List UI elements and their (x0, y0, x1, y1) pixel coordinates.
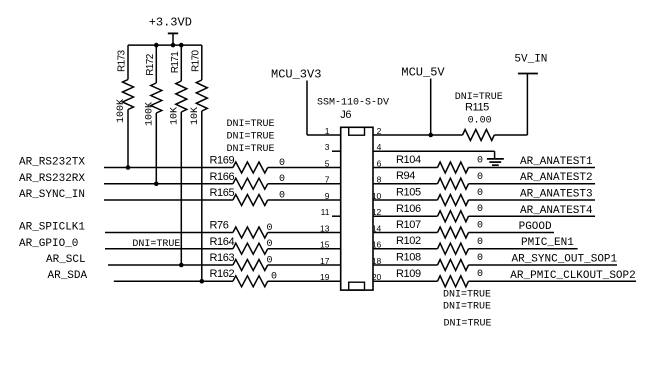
node R173/AR_RS232TX junction (126, 165, 131, 170)
svg-text:R162: R162 (210, 268, 235, 280)
node MCU_5V/pin2 junction (428, 133, 433, 138)
resistor R107 value 0 (396, 219, 483, 238)
svg-text:PMIC_EN1: PMIC_EN1 (521, 237, 574, 249)
svg-text:MCU_3V3: MCU_3V3 (271, 68, 321, 82)
wire pin 20 to AR_PMIC_CLKOUT_SOP2 (373, 280, 438, 282)
svg-text:0: 0 (279, 174, 285, 185)
resistor R169 value 0 (210, 155, 286, 174)
svg-text:0: 0 (477, 221, 483, 232)
svg-text:AR_ANATEST2: AR_ANATEST2 (520, 172, 593, 184)
svg-text:19: 19 (320, 272, 330, 282)
svg-text:11: 11 (321, 207, 330, 217)
wire AR_GPIO_0 to J6 (105, 248, 233, 250)
wire pin 3 stub (332, 150, 341, 152)
svg-text:AR_RS232RX: AR_RS232RX (19, 173, 85, 185)
node R171/AR_SCL junction (179, 263, 184, 268)
resistor R108 value 0 (396, 252, 483, 271)
wire pin 18 to AR_SYNC_OUT_SOP1 (373, 264, 438, 266)
svg-text:AR_ANATEST1: AR_ANATEST1 (520, 156, 593, 168)
resistor R105 value 0 (396, 187, 483, 206)
svg-text:0: 0 (477, 237, 483, 248)
resistor R106 value 0 (396, 203, 483, 222)
svg-text:R173: R173 (117, 49, 128, 72)
svg-text:DNI=TRUE: DNI=TRUE (132, 239, 180, 250)
svg-text:R172: R172 (145, 53, 156, 76)
svg-text:AR_RS232TX: AR_RS232TX (19, 157, 85, 169)
node R172/AR_RS232RX junction (154, 182, 159, 187)
svg-text:0: 0 (477, 156, 483, 167)
ground (487, 159, 504, 165)
svg-text:R106: R106 (396, 203, 421, 215)
svg-text:0.00: 0.00 (468, 115, 492, 126)
svg-text:R171: R171 (170, 51, 181, 74)
svg-text:R104: R104 (396, 154, 421, 166)
power symbol +3.3VD (149, 16, 192, 45)
connector J6 SSM-110-S-DV (317, 98, 389, 291)
svg-text:AR_ANATEST4: AR_ANATEST4 (520, 205, 593, 217)
svg-text:7: 7 (325, 175, 330, 185)
svg-text:5: 5 (325, 158, 330, 168)
wire AR_RS232TX to J6 (104, 167, 233, 169)
node bus junction at power stem (171, 43, 176, 48)
svg-text:AR_SDA: AR_SDA (48, 270, 88, 282)
svg-text:MCU_5V: MCU_5V (401, 66, 445, 80)
svg-text:0: 0 (279, 158, 285, 169)
resistor R109 value 0 (396, 268, 483, 287)
svg-text:R164: R164 (210, 236, 235, 248)
svg-text:R163: R163 (210, 252, 235, 264)
svg-text:R169: R169 (210, 155, 235, 167)
resistor R104 value 0 (396, 154, 483, 173)
node bus junction at R171 (179, 43, 184, 48)
resistor R162 value 0 (210, 268, 278, 287)
power symbol 5V_IN (514, 54, 547, 74)
wire AR_RS232RX to J6 (104, 183, 233, 185)
svg-text:9: 9 (325, 191, 330, 201)
svg-text:PGOOD: PGOOD (519, 221, 552, 233)
svg-text:10K: 10K (169, 107, 180, 125)
wire pin 10 to AR_ANATEST3 (373, 199, 438, 201)
svg-text:0: 0 (477, 172, 483, 183)
svg-text:AR_PMIC_CLKOUT_SOP2: AR_PMIC_CLKOUT_SOP2 (510, 270, 635, 282)
svg-text:15: 15 (320, 240, 330, 250)
wire AR_SPICLK1 to J6 (105, 232, 233, 234)
svg-text:R170: R170 (190, 49, 201, 72)
svg-text:10K: 10K (190, 107, 201, 125)
resistor R173 value 100K (116, 45, 134, 167)
svg-text:AR_SYNC_OUT_SOP1: AR_SYNC_OUT_SOP1 (512, 254, 618, 266)
svg-text:R165: R165 (210, 187, 235, 199)
svg-text:13: 13 (320, 223, 330, 233)
svg-text:R76: R76 (210, 220, 229, 232)
wire R115 to 5V_IN (494, 74, 527, 136)
wire pin 11 stub (332, 215, 341, 217)
wire pin 2 to R115 (373, 134, 463, 136)
svg-text:0: 0 (271, 272, 277, 283)
svg-text:R105: R105 (396, 187, 421, 199)
svg-text:AR_ANATEST3: AR_ANATEST3 (520, 189, 593, 201)
svg-text:0: 0 (477, 253, 483, 264)
resistor R94 value 0 (396, 170, 483, 189)
svg-text:0: 0 (267, 223, 273, 234)
svg-text:0: 0 (477, 204, 483, 215)
svg-text:R94: R94 (396, 170, 415, 182)
wire pin 8 to AR_ANATEST2 (373, 183, 438, 185)
resistor R171 value 10K (169, 45, 187, 265)
wire pin 12 to AR_ANATEST4 (373, 215, 438, 217)
wire pin 14 to PGOOD (373, 232, 438, 234)
wire pin 6 to AR_ANATEST1 (373, 167, 438, 169)
svg-text:0: 0 (267, 255, 273, 266)
svg-text:0: 0 (267, 239, 273, 250)
resistor R165 value 0 (210, 187, 286, 206)
resistor R115 value 0.00 (455, 92, 503, 141)
svg-text:DNI=TRUE: DNI=TRUE (443, 290, 491, 301)
svg-text:R109: R109 (396, 268, 421, 280)
resistor R172 value 100K (144, 45, 162, 184)
svg-text:SSM-110-S-DV: SSM-110-S-DV (317, 98, 389, 109)
svg-text:R115: R115 (465, 102, 489, 114)
svg-text:R108: R108 (396, 252, 421, 264)
svg-text:17: 17 (320, 256, 330, 266)
svg-text:3: 3 (325, 142, 330, 152)
svg-text:R107: R107 (396, 219, 421, 231)
resistor R163 value 0 (210, 252, 273, 271)
svg-text:J6: J6 (340, 109, 351, 121)
wire AR_SDA to J6 (114, 280, 233, 282)
svg-text:DNI=TRUE: DNI=TRUE (227, 131, 275, 142)
svg-text:DNI=TRUE: DNI=TRUE (443, 302, 491, 313)
svg-text:AR_SYNC_IN: AR_SYNC_IN (19, 189, 85, 201)
svg-text:DNI=TRUE: DNI=TRUE (227, 119, 275, 130)
resistor R102 value 0 (396, 235, 483, 254)
wire AR_SYNC_IN to J6 (104, 199, 233, 201)
svg-text:0: 0 (477, 188, 483, 199)
wire +3.3VD bus (128, 44, 202, 46)
wire pin 4 to ground (373, 151, 495, 159)
node bus junction at R172 (154, 43, 159, 48)
svg-text:100K: 100K (144, 102, 155, 126)
svg-text:+3.3VD: +3.3VD (149, 16, 192, 30)
svg-text:R166: R166 (210, 171, 235, 183)
svg-text:100K: 100K (116, 99, 127, 123)
resistor R170 value 10K (190, 45, 208, 281)
wire MCU_3V3 to pin 1 (307, 81, 341, 136)
svg-text:AR_GPIO_0: AR_GPIO_0 (19, 238, 78, 250)
wire AR_SCL to J6 (108, 264, 233, 266)
svg-text:5V_IN: 5V_IN (514, 54, 547, 66)
svg-text:AR_SCL: AR_SCL (46, 254, 86, 266)
svg-text:R102: R102 (396, 235, 421, 247)
svg-text:0: 0 (279, 190, 285, 201)
resistor R164 value 0 (210, 236, 273, 254)
svg-text:DNI=TRUE: DNI=TRUE (444, 318, 492, 329)
resistor R166 value 0 (210, 171, 286, 189)
svg-text:AR_SPICLK1: AR_SPICLK1 (19, 222, 85, 234)
svg-text:DNI=TRUE: DNI=TRUE (227, 144, 275, 155)
resistor R76 value 0 (210, 220, 273, 239)
node R170/AR_SDA junction (200, 279, 205, 284)
svg-text:0: 0 (477, 269, 483, 280)
wire pin 16 to PMIC_EN1 (373, 248, 438, 250)
wire MCU_5V drop to pin 2 (430, 79, 432, 136)
